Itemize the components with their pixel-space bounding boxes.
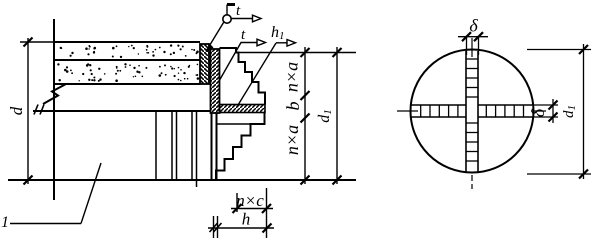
svg-text:b: b xyxy=(283,102,303,111)
svg-text:1: 1 xyxy=(1,214,9,231)
svg-text:δ: δ xyxy=(469,16,478,36)
svg-text:n×a: n×a xyxy=(282,62,302,92)
svg-text:n×c: n×c xyxy=(236,191,264,210)
svg-text:δ: δ xyxy=(528,108,548,117)
svg-text:n×a: n×a xyxy=(282,125,302,155)
svg-text:h: h xyxy=(242,210,251,229)
svg-text:d: d xyxy=(7,106,26,115)
